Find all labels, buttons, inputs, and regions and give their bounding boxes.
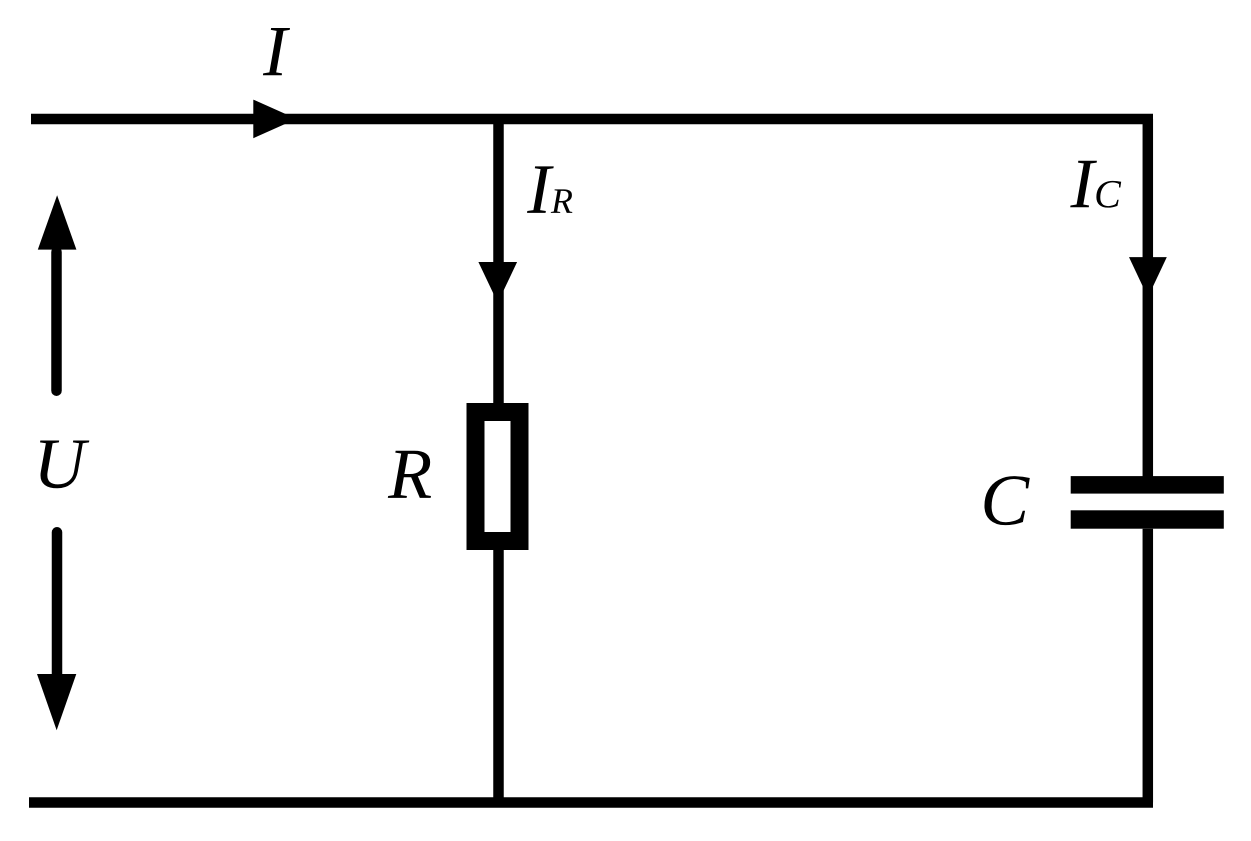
wire: top rail from left open end to top-right corner xyxy=(31,114,1153,125)
wire: resistor branch lower segment from resistor to bottom rail xyxy=(493,541,504,802)
current arrowhead IC on capacitor branch xyxy=(1129,257,1167,297)
wire: bottom rail from left open end to bottom-right corner xyxy=(29,797,1153,808)
current arrowhead I on top rail xyxy=(253,100,296,139)
label I (total current) xyxy=(263,28,290,75)
label R (resistor) xyxy=(388,451,431,498)
wire: capacitor branch upper segment from top-right corner to capacitor xyxy=(1143,119,1154,480)
resistor R body xyxy=(476,412,520,541)
label IR (resistor current) xyxy=(527,166,572,212)
capacitor C bottom plate xyxy=(1071,510,1224,528)
label IC (capacitor current) xyxy=(1070,161,1121,208)
voltage arrow U upper (pointing up) shaft xyxy=(38,195,77,391)
wire: resistor branch upper segment from top rail to resistor xyxy=(493,119,504,414)
label U (voltage) xyxy=(40,440,89,488)
label C (capacitor) xyxy=(984,476,1029,525)
voltage arrow U lower (pointing down) shaft xyxy=(37,532,76,730)
capacitor C top plate xyxy=(1071,476,1224,494)
wire: capacitor branch lower segment from capacitor to bottom rail xyxy=(1143,529,1154,803)
current arrowhead IR on resistor branch xyxy=(478,262,517,303)
